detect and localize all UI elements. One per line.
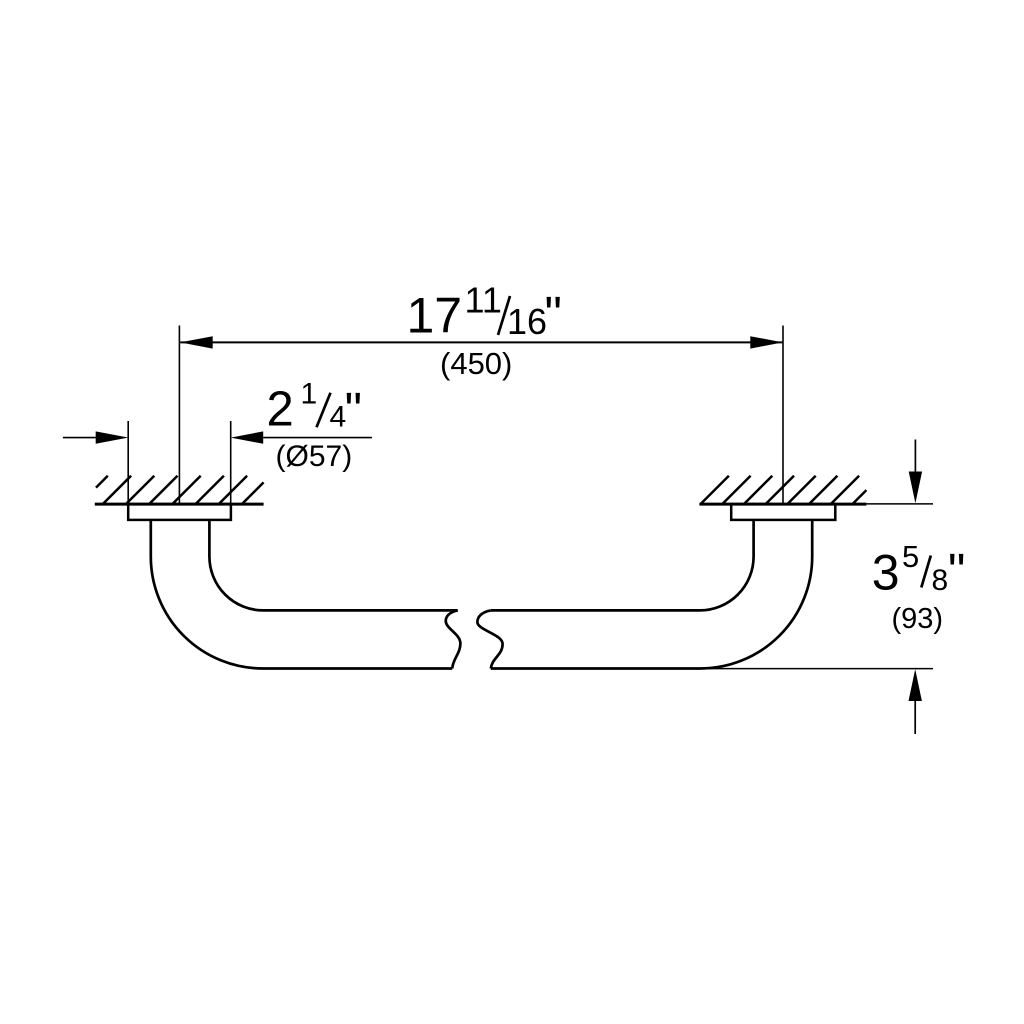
wire: 2 1/4 dimension right tail [263, 437, 372, 439]
node F: right arrowhead of 57 dimension [231, 431, 264, 443]
svg-text:": " [545, 287, 562, 341]
node I: down arrowhead of 93 dimension [909, 472, 922, 504]
break symbol left squiggle [446, 610, 461, 668]
svg-text:(450): (450) [440, 346, 512, 381]
break symbol right squiggle [477, 610, 502, 668]
node B: right arrowhead of 450 dimension [750, 336, 783, 348]
wire: top dimension line 450 [180, 341, 783, 343]
wire: right extension line (center of right flange) [782, 326, 784, 504]
right post and bend inner edge [491, 520, 754, 611]
left post and bend outer edge [151, 520, 452, 669]
wall left [95, 503, 264, 506]
node E: left arrowhead of 57 dimension [96, 431, 129, 443]
svg-text:17: 17 [407, 288, 463, 344]
left flange plate [128, 504, 231, 520]
right flange plate [731, 504, 835, 520]
wire: wall level extension line right [866, 503, 933, 505]
svg-text:(Ø57): (Ø57) [276, 440, 353, 473]
wire: extension line right flange edge [230, 421, 232, 505]
svg-text:2: 2 [267, 382, 294, 436]
wire: 2 1/4 dimension left tail [63, 437, 96, 439]
svg-text:": " [345, 383, 362, 437]
node G: dimension text 2 1/4" [267, 378, 363, 438]
wire: extension line left flange edge [127, 421, 129, 505]
node J: up arrowhead of 93 dimension [909, 669, 922, 701]
left post and bend inner edge [209, 520, 457, 611]
node C: dimension text 17 11/16" [407, 280, 562, 344]
svg-text:1: 1 [301, 378, 318, 411]
svg-text:5: 5 [902, 539, 919, 574]
wall left hatching [96, 476, 264, 504]
wire: bar bottom extension line right [700, 668, 933, 670]
svg-text:": " [948, 545, 965, 599]
right post and bend outer edge [491, 520, 812, 669]
svg-text:(93): (93) [892, 603, 944, 635]
wire: 93 dimension upper leader [914, 440, 916, 473]
wall right [699, 503, 866, 506]
svg-text:16: 16 [507, 301, 547, 342]
wall right hatching [701, 476, 867, 504]
svg-text:3: 3 [872, 545, 900, 601]
wire: 93 dimension lower leader [914, 701, 916, 735]
svg-text:8: 8 [932, 564, 949, 597]
node K: dimension text 3 5/8" [872, 539, 966, 601]
svg-text:11: 11 [465, 280, 502, 321]
wire: left extension line (center of left flange) [178, 326, 180, 504]
node A: left arrowhead of 450 dimension [180, 336, 213, 348]
